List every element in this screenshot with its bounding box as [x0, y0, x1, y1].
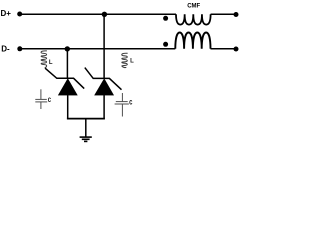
parasitic inductor L (right) coil — [122, 53, 128, 67]
CMF bottom winding coil — [175, 33, 210, 49]
wire: right TVS diode cathode lead from D+ junction (crosses D- rail) — [103, 14, 105, 78]
wire D+ rail (right segment) — [211, 13, 236, 15]
svg-text:L: L — [130, 59, 134, 65]
svg-text:D-: D- — [1, 44, 10, 53]
terminal dot D+ (right) — [234, 12, 239, 17]
parasitic capacitor C (left): top lead — [40, 89, 42, 99]
junction dot D+ to right TVS diode — [102, 12, 107, 17]
svg-text:c: c — [48, 95, 52, 104]
parasitic capacitor C (left): top plate — [35, 98, 47, 100]
terminal dot D+ (left) — [17, 12, 22, 17]
svg-text:L: L — [49, 60, 53, 66]
parasitic inductor L (left) coil — [41, 51, 47, 68]
parasitic capacitor C (right): top lead — [121, 93, 123, 102]
terminal dot D- (left) — [17, 46, 22, 51]
wire: left TVS diode anode lead down — [67, 95, 69, 119]
CMF top winding coil — [176, 14, 211, 24]
TVS diode (right) anode triangle — [95, 79, 114, 95]
wire: ground tap — [85, 119, 87, 137]
svg-text:D+: D+ — [1, 9, 12, 18]
ground symbol — [80, 137, 92, 141]
svg-text:c: c — [129, 98, 133, 107]
TVS diode (left) anode triangle — [58, 79, 77, 95]
wire D+ rail (left segment) — [20, 13, 176, 15]
svg-text:CMF: CMF — [187, 4, 200, 10]
wire D- rail (left segment) — [20, 48, 176, 50]
terminal dot D- (right) — [234, 47, 239, 52]
wire D- rail (right segment) — [211, 48, 236, 50]
wire: bottom rail joining diode anodes — [67, 118, 105, 120]
TVS diode (right) zener cathode bar with bent ends — [85, 68, 122, 90]
wire: right TVS diode anode lead down — [103, 95, 105, 119]
TVS diode (left) zener cathode bar with bent ends — [45, 68, 84, 88]
parasitic capacitor C (left): bottom lead — [40, 102, 42, 109]
wire: left TVS diode cathode lead from D- junction — [66, 49, 68, 79]
parasitic capacitor C (right): bottom lead — [121, 104, 123, 117]
parasitic capacitor C (left): bottom plate — [35, 101, 47, 103]
CMF polarity dot (bottom winding) — [163, 42, 168, 47]
parasitic capacitor C (right): bottom plate — [115, 103, 129, 105]
parasitic capacitor C (right): top plate — [116, 101, 128, 103]
junction dot D- to left TVS diode — [65, 46, 70, 51]
CMF polarity dot (top winding) — [163, 16, 168, 21]
